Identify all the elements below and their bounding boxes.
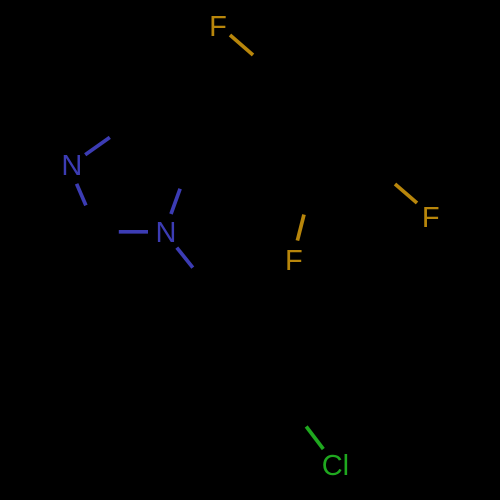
wire: bond N1-CH2 (blue half) (177, 248, 193, 268)
wire: bond F(right)-C (orange half) (395, 184, 417, 203)
wire: bond Cl-C (green half) (306, 427, 323, 450)
svg-text:N: N (156, 217, 177, 249)
svg-text:F: F (285, 245, 303, 277)
wire: bond N3-C4 (blue half) (85, 137, 110, 154)
wire: bond N3-C2 (blue half) (77, 184, 86, 206)
svg-text:N: N (61, 150, 82, 182)
wire: bond F(top)-C (orange half) (230, 35, 253, 55)
wire: bond N1-C5 (blue half) (171, 189, 180, 214)
wire: bond F(middle)-C (orange half) (297, 215, 304, 241)
wire: bond C2-N1 (blue half) (119, 230, 148, 234)
svg-text:Cl: Cl (322, 450, 349, 482)
svg-text:F: F (209, 11, 227, 43)
svg-text:F: F (422, 202, 440, 234)
